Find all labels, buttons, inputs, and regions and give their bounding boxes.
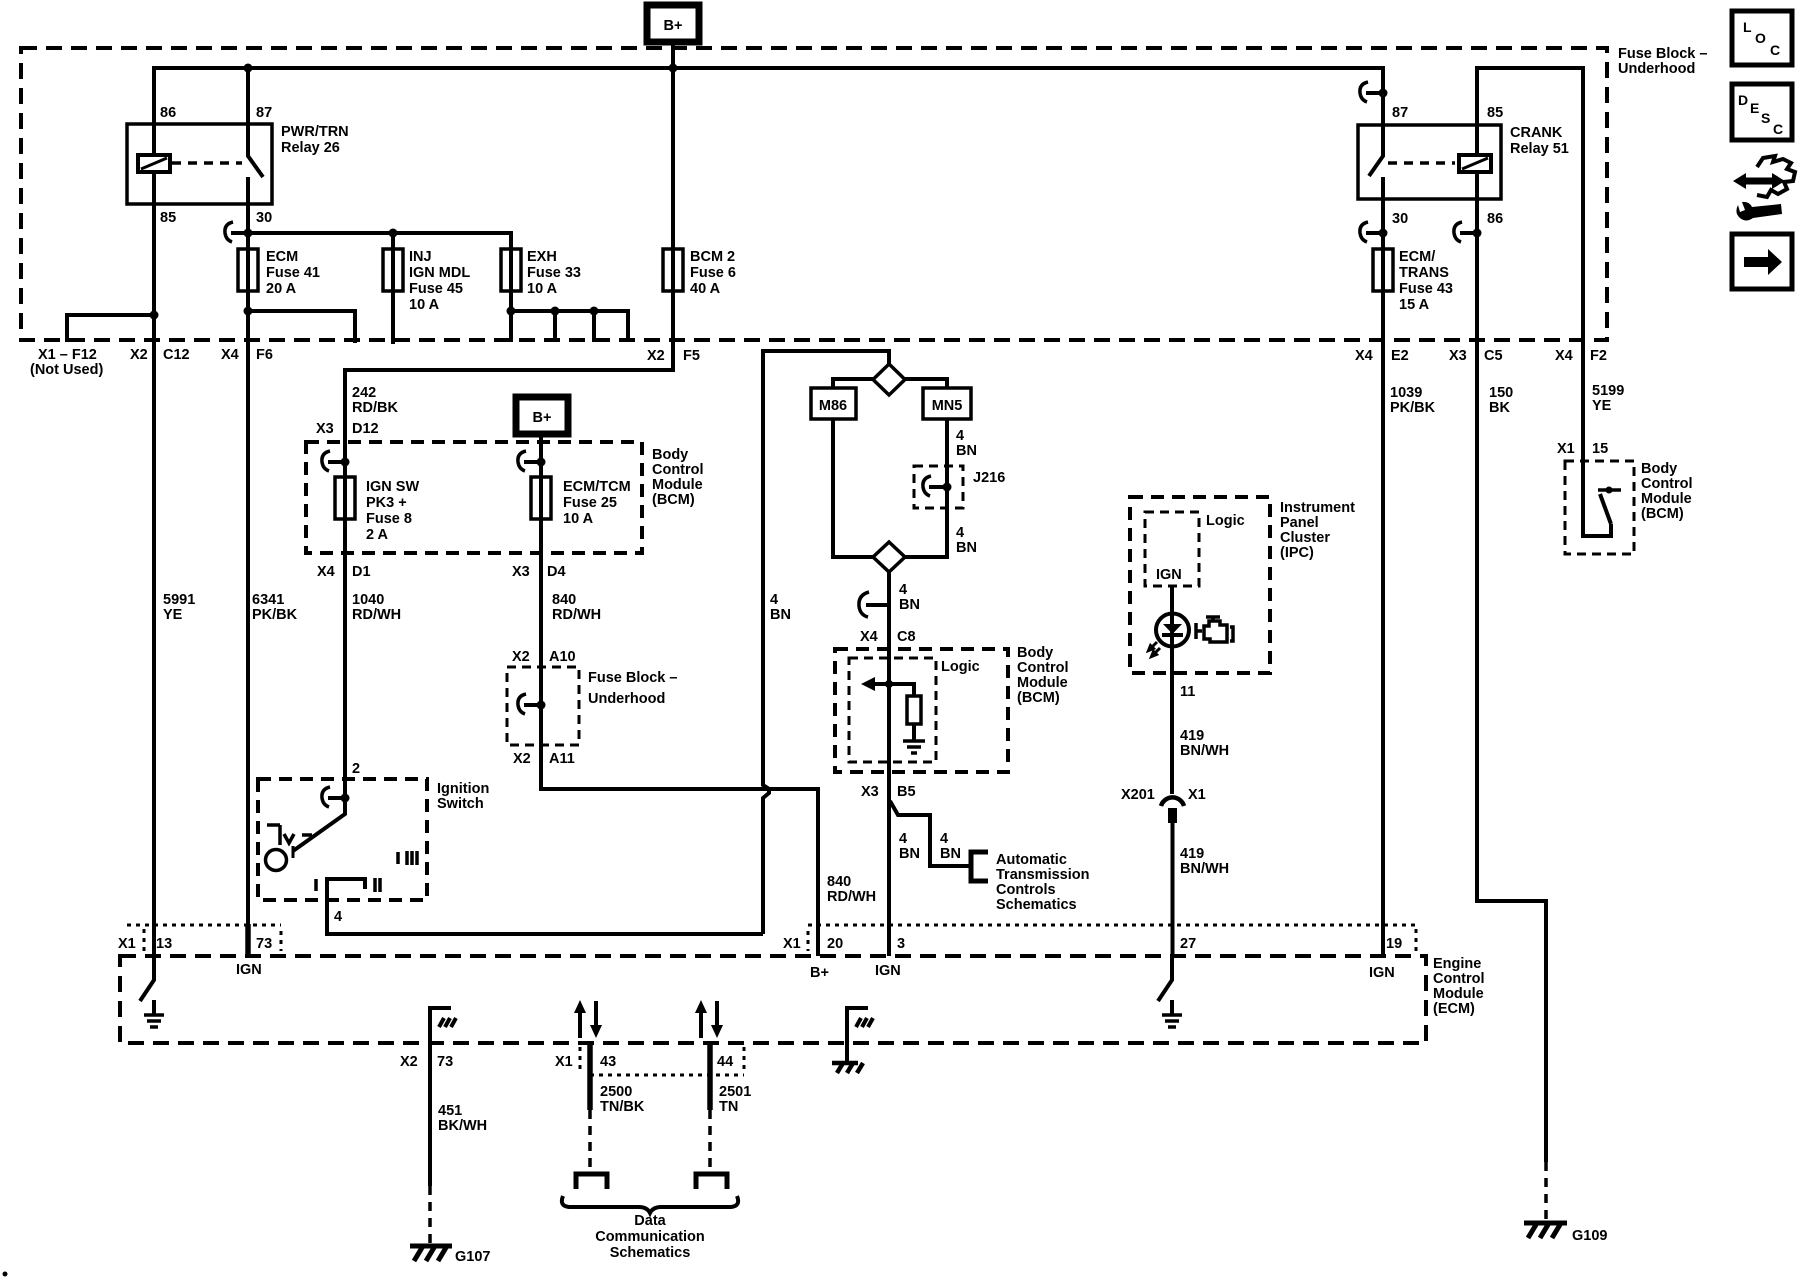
svg-text:Data: Data (634, 1213, 666, 1229)
svg-text:419: 419 (1180, 846, 1204, 862)
fuse EXH Fuse 33 (501, 249, 581, 297)
svg-text:YE: YE (1592, 398, 1612, 414)
wire diamond to M86 (833, 379, 873, 388)
svg-text:Underhood: Underhood (588, 691, 665, 707)
relay coil (138, 155, 170, 172)
clip at C8 (866, 603, 889, 607)
svg-text:840: 840 (827, 874, 851, 890)
brace data communication (562, 1196, 738, 1213)
svg-text:X2: X2 (647, 348, 665, 364)
wire fuse41 out to F6 and stub (246, 291, 250, 344)
wire 419 BN/WH to X201 (1170, 647, 1174, 794)
svg-text:4: 4 (770, 592, 778, 608)
wire M86 down to diamond2 (833, 419, 873, 557)
splice diamond bottom (873, 542, 905, 572)
fuse IGN SW PK3 + Fuse 8 (335, 477, 419, 543)
svg-text:X3: X3 (316, 421, 334, 437)
position III (398, 851, 417, 865)
node B+ (BCM feed box) (516, 397, 568, 434)
relay PWR/TRN Relay 26 (127, 105, 349, 226)
svg-text:C: C (1770, 42, 1780, 58)
wire pin4 to 4BN riser (327, 900, 763, 934)
wire through logic to B5 (887, 649, 891, 956)
module BCM main dashed box (306, 442, 704, 553)
module ECM dashed box (120, 956, 1485, 1043)
svg-text:CRANK: CRANK (1510, 125, 1563, 141)
svg-text:IGN: IGN (875, 963, 901, 979)
svg-text:X4: X4 (860, 629, 878, 645)
svg-text:1039: 1039 (1390, 385, 1422, 401)
svg-text:YE: YE (163, 607, 183, 623)
svg-text:Schematics: Schematics (996, 897, 1077, 913)
svg-text:X2: X2 (512, 649, 530, 665)
svg-text:ECM: ECM (266, 249, 298, 265)
data link arrows pin 44 (695, 1000, 723, 1038)
wire crank 30 to fuse43 (1381, 199, 1385, 249)
wire 5991 YE to ECM pin 13 (152, 344, 156, 956)
svg-text:Fuse 43: Fuse 43 (1399, 281, 1453, 297)
svg-text:6341: 6341 (252, 592, 284, 608)
svg-text:Control: Control (1433, 971, 1485, 987)
svg-text:X4: X4 (317, 564, 335, 580)
svg-text:73: 73 (437, 1054, 453, 1070)
ECM pin27 internal switch to ground (1158, 956, 1182, 1027)
clip at fuse25 (524, 460, 541, 464)
svg-text:40 A: 40 A (690, 281, 721, 297)
wire 4BN branch to ATC (890, 801, 971, 866)
relay contact blade (248, 124, 263, 204)
module BCM right small box (1565, 461, 1693, 554)
svg-text:BCM 2: BCM 2 (690, 249, 735, 265)
svg-text:ECM/: ECM/ (1399, 249, 1435, 265)
svg-text:Controls: Controls (996, 882, 1056, 898)
svg-text:X2: X2 (513, 751, 531, 767)
svg-text:10 A: 10 A (409, 297, 440, 313)
svg-text:E2: E2 (1391, 348, 1409, 364)
svg-text:Engine: Engine (1433, 956, 1481, 972)
svg-text:5199: 5199 (1592, 383, 1624, 399)
svg-text:(Not Used): (Not Used) (30, 362, 103, 378)
svg-text:BN: BN (770, 607, 791, 623)
svg-text:TRANS: TRANS (1399, 265, 1449, 281)
svg-text:F5: F5 (683, 348, 700, 364)
svg-text:MN5: MN5 (932, 398, 963, 414)
svg-text:E: E (1750, 100, 1759, 116)
connector fuse block underhood A10/A11 (507, 649, 677, 767)
svg-text:Control: Control (652, 462, 704, 478)
svg-text:73: 73 (256, 936, 272, 952)
svg-text:4: 4 (899, 582, 907, 598)
svg-text:Communication: Communication (595, 1229, 705, 1245)
svg-text:C8: C8 (897, 629, 916, 645)
svg-text:2 A: 2 A (366, 527, 389, 543)
svg-text:10 A: 10 A (563, 511, 594, 527)
position IV (267, 825, 294, 845)
svg-text:44: 44 (717, 1054, 733, 1070)
svg-text:Relay 26: Relay 26 (281, 140, 340, 156)
svg-text:85: 85 (160, 210, 176, 226)
icon LOC box (1732, 11, 1792, 65)
svg-text:Body: Body (1641, 461, 1677, 477)
clip on fuse bus (231, 231, 248, 235)
connector MN5 (923, 388, 971, 419)
clip at crank 87 (1366, 91, 1383, 95)
svg-text:X3: X3 (861, 784, 879, 800)
svg-text:87: 87 (256, 105, 272, 121)
svg-text:15: 15 (1592, 441, 1608, 457)
svg-text:RD/WH: RD/WH (552, 607, 601, 623)
svg-text:Fuse Block –: Fuse Block – (1618, 46, 1707, 62)
svg-text:X1: X1 (1188, 787, 1206, 803)
pin 73 stub (245, 924, 251, 956)
svg-text:419: 419 (1180, 728, 1204, 744)
svg-text:INJ: INJ (409, 249, 432, 265)
svg-text:X1: X1 (555, 1054, 573, 1070)
indicator LED in IPC (1149, 586, 1190, 657)
svg-text:IGN SW: IGN SW (366, 479, 419, 495)
svg-text:ECM/TCM: ECM/TCM (563, 479, 631, 495)
svg-text:4: 4 (334, 909, 342, 925)
relay contact dashes (172, 161, 242, 165)
svg-text:4: 4 (940, 831, 948, 847)
svg-text:PWR/TRN: PWR/TRN (281, 124, 349, 140)
wire MN5 down to diamond2 (905, 419, 947, 557)
wire 2500 TN/BK (587, 1043, 593, 1110)
svg-text:BN: BN (940, 846, 961, 862)
wire 4BN vertical with jump over 840 (763, 351, 889, 934)
fuse ECM/TCM Fuse 25 (531, 477, 631, 527)
position I (314, 879, 318, 891)
wire 30 to fuse bus (246, 204, 250, 249)
svg-text:S: S (1761, 110, 1770, 126)
svg-text:X3: X3 (1449, 348, 1467, 364)
ignition blade (293, 798, 345, 851)
svg-text:D12: D12 (352, 421, 379, 437)
svg-text:(BCM): (BCM) (1017, 690, 1060, 706)
svg-text:X4: X4 (1555, 348, 1573, 364)
svg-text:TN/BK: TN/BK (600, 1099, 645, 1115)
svg-text:X3: X3 (512, 564, 530, 580)
contact 4 bracket (327, 879, 365, 900)
svg-text:F6: F6 (256, 347, 273, 363)
svg-text:4: 4 (956, 525, 964, 541)
svg-text:Switch: Switch (437, 796, 484, 812)
svg-text:Fuse 25: Fuse 25 (563, 495, 617, 511)
svg-text:X1: X1 (118, 936, 136, 952)
crank relay coil (1459, 155, 1491, 172)
wire 85 coil to C12 with branch (152, 204, 156, 344)
clip at D12 inside BCM (328, 460, 345, 464)
svg-text:20: 20 (827, 936, 843, 952)
icon harness arrows (1733, 156, 1795, 221)
svg-text:X201: X201 (1121, 787, 1155, 803)
svg-text:X1: X1 (783, 936, 801, 952)
wire B+2 into BCM (539, 434, 543, 477)
fuse BCM 2 Fuse 6 (663, 249, 736, 297)
wire fuse43 to E2 (1381, 291, 1385, 344)
crank relay contact blade (1369, 125, 1383, 199)
ECM internal ground mid (832, 1008, 873, 1073)
connector X201 (1121, 787, 1206, 823)
svg-text:X1: X1 (1557, 441, 1575, 457)
connector bracket 44 (696, 1174, 727, 1189)
data link arrows pin 43 (574, 1000, 602, 1038)
svg-text:87: 87 (1392, 105, 1408, 121)
svg-text:2: 2 (352, 761, 360, 777)
fuse ECM Fuse 41 (238, 249, 320, 297)
svg-text:Automatic: Automatic (996, 852, 1067, 868)
svg-text:(BCM): (BCM) (652, 492, 695, 508)
svg-text:242: 242 (352, 385, 376, 401)
wire main B+ bus (154, 68, 1383, 124)
svg-text:BN: BN (899, 846, 920, 862)
crank relay contact dashes (1388, 161, 1455, 165)
svg-text:IGN: IGN (236, 962, 262, 978)
svg-text:3: 3 (897, 936, 905, 952)
svg-text:RD/WH: RD/WH (352, 607, 401, 623)
fuse feed bus (248, 233, 511, 249)
svg-text:2501: 2501 (719, 1084, 751, 1100)
svg-text:BK: BK (1489, 400, 1510, 416)
wire 1039 PK/BK to ECM pin19 (1381, 344, 1385, 956)
svg-text:BN: BN (956, 540, 977, 556)
svg-text:Relay 51: Relay 51 (1510, 141, 1569, 157)
icon forward arrow box (1732, 234, 1792, 289)
svg-text:BN/WH: BN/WH (1180, 743, 1229, 759)
svg-text:A11: A11 (549, 751, 575, 767)
svg-text:Fuse 8: Fuse 8 (366, 511, 412, 527)
wire diamond2 down through C8 (887, 572, 891, 649)
svg-text:4: 4 (956, 428, 964, 444)
wire 840 from A11 to ECM pin 20 (541, 745, 818, 956)
svg-text:B5: B5 (897, 784, 916, 800)
position II (375, 878, 380, 892)
svg-text:Body: Body (1017, 645, 1053, 661)
svg-text:X4: X4 (221, 347, 239, 363)
svg-text:X1 – F12: X1 – F12 (38, 347, 97, 363)
svg-text:5991: 5991 (163, 592, 195, 608)
svg-text:B+: B+ (810, 965, 829, 981)
svg-text:4: 4 (899, 831, 907, 847)
node B+ (top battery feed box) (647, 5, 699, 42)
svg-text:43: 43 (600, 1054, 616, 1070)
junction on bus at relay87 (244, 64, 253, 73)
svg-text:86: 86 (1487, 211, 1503, 227)
connector bracket 43 (576, 1174, 607, 1189)
ground G107 (410, 1246, 490, 1265)
wire crank 86 down (1475, 199, 1479, 344)
svg-text:150: 150 (1489, 385, 1513, 401)
svg-text:Module: Module (652, 477, 703, 493)
svg-text:30: 30 (1392, 211, 1408, 227)
svg-text:RD/BK: RD/BK (352, 400, 398, 416)
svg-text:Control: Control (1017, 660, 1069, 676)
svg-text:BN: BN (899, 597, 920, 613)
module BCM logic dashed box (835, 645, 1069, 772)
svg-text:C: C (1773, 121, 1783, 137)
switch ignition (258, 761, 489, 925)
svg-text:85: 85 (1487, 105, 1503, 121)
wire 419 BN/WH to ECM pin 27 (1171, 823, 1175, 956)
svg-text:IGN: IGN (1369, 965, 1395, 981)
ground G109 (1524, 1223, 1607, 1244)
svg-text:EXH: EXH (527, 249, 557, 265)
ECM pin13 internal switch to ground (140, 956, 164, 1027)
svg-text:M86: M86 (819, 398, 847, 414)
svg-text:451: 451 (438, 1103, 462, 1119)
svg-text:840: 840 (552, 592, 576, 608)
svg-text:30: 30 (256, 210, 272, 226)
svg-text:10 A: 10 A (527, 281, 558, 297)
svg-text:BN: BN (956, 443, 977, 459)
icon DESC box (1732, 84, 1792, 140)
svg-text:L: L (1743, 19, 1752, 35)
fuse block underhood dashed box (21, 46, 1707, 340)
svg-text:13: 13 (156, 936, 172, 952)
svg-text:D4: D4 (547, 564, 566, 580)
ECM case ground to pin X2|73 (430, 1008, 460, 1043)
splice diamond top (873, 364, 905, 395)
svg-text:BK/WH: BK/WH (438, 1118, 487, 1134)
clip at crank 30 (1366, 231, 1383, 235)
svg-text:Panel: Panel (1280, 515, 1319, 531)
svg-text:IGN MDL: IGN MDL (409, 265, 470, 281)
splice J216 (914, 466, 1005, 508)
svg-text:Module: Module (1641, 491, 1692, 507)
svg-text:TN: TN (719, 1099, 738, 1115)
wire fuse6 out to F5 then to D12 (345, 291, 673, 477)
svg-text:G109: G109 (1572, 1228, 1607, 1244)
svg-text:Fuse 33: Fuse 33 (527, 265, 581, 281)
svg-text:Control: Control (1641, 476, 1693, 492)
svg-text:B+: B+ (533, 410, 552, 426)
svg-text:J216: J216 (973, 470, 1005, 486)
svg-text:F2: F2 (1590, 348, 1607, 364)
arrow to logic (874, 684, 914, 696)
wire B+ down to bus (671, 42, 675, 249)
svg-text:Cluster: Cluster (1280, 530, 1330, 546)
wire 6341 PK/BK to ECM pin 73 (246, 344, 250, 924)
svg-text:D1: D1 (352, 564, 371, 580)
svg-text:G107: G107 (455, 1249, 490, 1265)
svg-text:27: 27 (1180, 936, 1196, 952)
svg-text:Fuse Block –: Fuse Block – (588, 670, 677, 686)
fuse INJ IGN MDL Fuse 45 (383, 249, 470, 344)
svg-text:Logic: Logic (1206, 513, 1245, 529)
svg-text:PK/BK: PK/BK (252, 607, 298, 623)
svg-text:Instrument: Instrument (1280, 500, 1355, 516)
svg-text:B+: B+ (664, 18, 683, 34)
svg-text:X2: X2 (400, 1054, 418, 1070)
connector M86 (811, 388, 856, 419)
clip at pin2 (328, 796, 345, 800)
svg-text:X4: X4 (1355, 348, 1373, 364)
junction on bus at B+ drop (669, 64, 678, 73)
wire fuse33 out stubs (509, 291, 513, 342)
resistor in logic (907, 696, 921, 724)
svg-text:20 A: 20 A (266, 281, 297, 297)
svg-text:Logic: Logic (941, 659, 980, 675)
svg-text:Ignition: Ignition (437, 781, 489, 797)
svg-text:(IPC): (IPC) (1280, 545, 1314, 561)
svg-text:RD/WH: RD/WH (827, 889, 876, 905)
svg-text:O: O (1755, 30, 1766, 46)
wire relay 87 drop (246, 68, 250, 124)
relay CRANK Relay 51 (1358, 105, 1569, 227)
svg-text:C5: C5 (1484, 348, 1503, 364)
wire 5199 YE to BCM X1|15 (1581, 344, 1585, 461)
svg-text:86: 86 (160, 105, 176, 121)
svg-text:11: 11 (1180, 684, 1195, 700)
svg-text:Fuse 6: Fuse 6 (690, 265, 736, 281)
svg-text:19: 19 (1386, 936, 1402, 952)
wire diamond to MN5 (905, 379, 947, 388)
svg-text:Body: Body (652, 447, 688, 463)
svg-text:15 A: 15 A (1399, 297, 1430, 313)
wire crank 85 to F2 feed (1477, 68, 1583, 344)
svg-text:Transmission: Transmission (996, 867, 1089, 883)
wire 2501 TN (707, 1043, 713, 1110)
wire fuse25 out D4 to A10 (539, 519, 543, 667)
fuse ECM/TRANS Fuse 43 (1373, 249, 1453, 313)
svg-text:D: D (1738, 92, 1748, 108)
svg-text:Fuse 41: Fuse 41 (266, 265, 320, 281)
svg-text:Underhood: Underhood (1618, 61, 1695, 77)
svg-text:PK/BK: PK/BK (1390, 400, 1436, 416)
ECM connector face dotted lines (127, 924, 281, 927)
svg-text:Module: Module (1017, 675, 1068, 691)
svg-text:IGN: IGN (1156, 567, 1182, 583)
page dot (3, 1272, 8, 1277)
svg-text:A10: A10 (549, 649, 576, 665)
svg-text:2500: 2500 (600, 1084, 632, 1100)
wire 451 BK/WH to G107 (428, 1043, 432, 1186)
dotted connector outline 43/44 (579, 1047, 582, 1071)
module IPC dashed box (1130, 497, 1355, 673)
svg-text:Schematics: Schematics (610, 1245, 691, 1261)
offpage bracket ATC (971, 852, 988, 881)
icon engine (MIL) (1196, 617, 1233, 642)
clip at crank 86 (1460, 231, 1477, 235)
svg-text:(ECM): (ECM) (1433, 1001, 1475, 1017)
wire fuse8 out D1 to ignition switch (343, 519, 347, 798)
svg-text:(BCM): (BCM) (1641, 506, 1684, 522)
svg-text:1040: 1040 (352, 592, 384, 608)
svg-text:BN/WH: BN/WH (1180, 861, 1229, 877)
svg-text:C12: C12 (163, 347, 190, 363)
ground in logic (903, 741, 925, 753)
svg-text:X2: X2 (130, 347, 148, 363)
svg-text:Module: Module (1433, 986, 1484, 1002)
svg-text:PK3 +: PK3 + (366, 495, 407, 511)
svg-text:Fuse 45: Fuse 45 (409, 281, 463, 297)
ignition rotor circle (266, 850, 287, 871)
wire 150 BK to G109 (1477, 344, 1546, 1162)
